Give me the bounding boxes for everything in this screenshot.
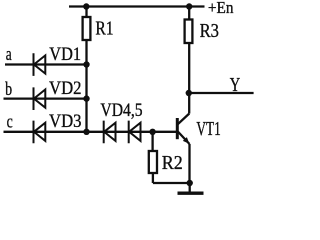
wire output Y (189, 92, 254, 94)
transistor VT1 collector diagonal (178, 114, 190, 125)
wire bus R1 down to input net (85, 40, 87, 132)
node R2 branch junction (149, 129, 155, 135)
diode VD3 (34, 121, 46, 144)
resistor R1 (83, 17, 91, 40)
svg-text:+En: +En (208, 0, 234, 17)
diode VD5 (129, 121, 141, 144)
node input a junction (83, 61, 89, 67)
wire input a (5, 63, 87, 65)
wire bus from top rail to R1 (85, 7, 87, 18)
wire R2 bottom to emitter node (153, 173, 190, 183)
svg-text:R1: R1 (95, 18, 113, 40)
node top rail / R1 junction (83, 3, 89, 9)
svg-text:VD4,5: VD4,5 (100, 100, 142, 121)
diode VD2 (34, 87, 46, 110)
ground (178, 191, 204, 194)
node emitter ground junction (187, 180, 193, 186)
svg-text:a: a (6, 44, 12, 65)
wire R2 branch from base net (151, 132, 153, 151)
svg-text:R2: R2 (162, 152, 183, 174)
svg-text:R3: R3 (200, 20, 219, 42)
svg-text:Y: Y (230, 74, 241, 96)
wire top +En rail (69, 5, 205, 7)
wire input b (4, 97, 87, 99)
svg-text:VD1: VD1 (49, 44, 81, 65)
transistor VT1 emitter diagonal (178, 132, 190, 145)
resistor R3 (185, 20, 193, 44)
diode VD1 (34, 53, 46, 76)
transistor VT1 base bar (176, 118, 179, 139)
node input c junction (83, 129, 89, 135)
svg-text:VD3: VD3 (49, 111, 82, 132)
transistor VT1 emitter arrow (183, 137, 190, 144)
wire R3 to collector (188, 43, 190, 114)
svg-text:VT1: VT1 (196, 118, 220, 140)
wire R3 branch from top rail (188, 7, 190, 20)
svg-text:b: b (5, 79, 12, 100)
diode VD4 (104, 121, 116, 144)
node top rail / R3 junction (186, 3, 192, 9)
resistor R2 (149, 151, 157, 173)
svg-text:c: c (7, 112, 13, 133)
node Y output junction (186, 90, 192, 96)
node input b junction (83, 95, 89, 101)
wire input c and diode chain to base (4, 131, 177, 133)
wire emitter down (188, 144, 190, 183)
svg-text:VD2: VD2 (49, 78, 82, 99)
wire ground stub (189, 183, 191, 192)
